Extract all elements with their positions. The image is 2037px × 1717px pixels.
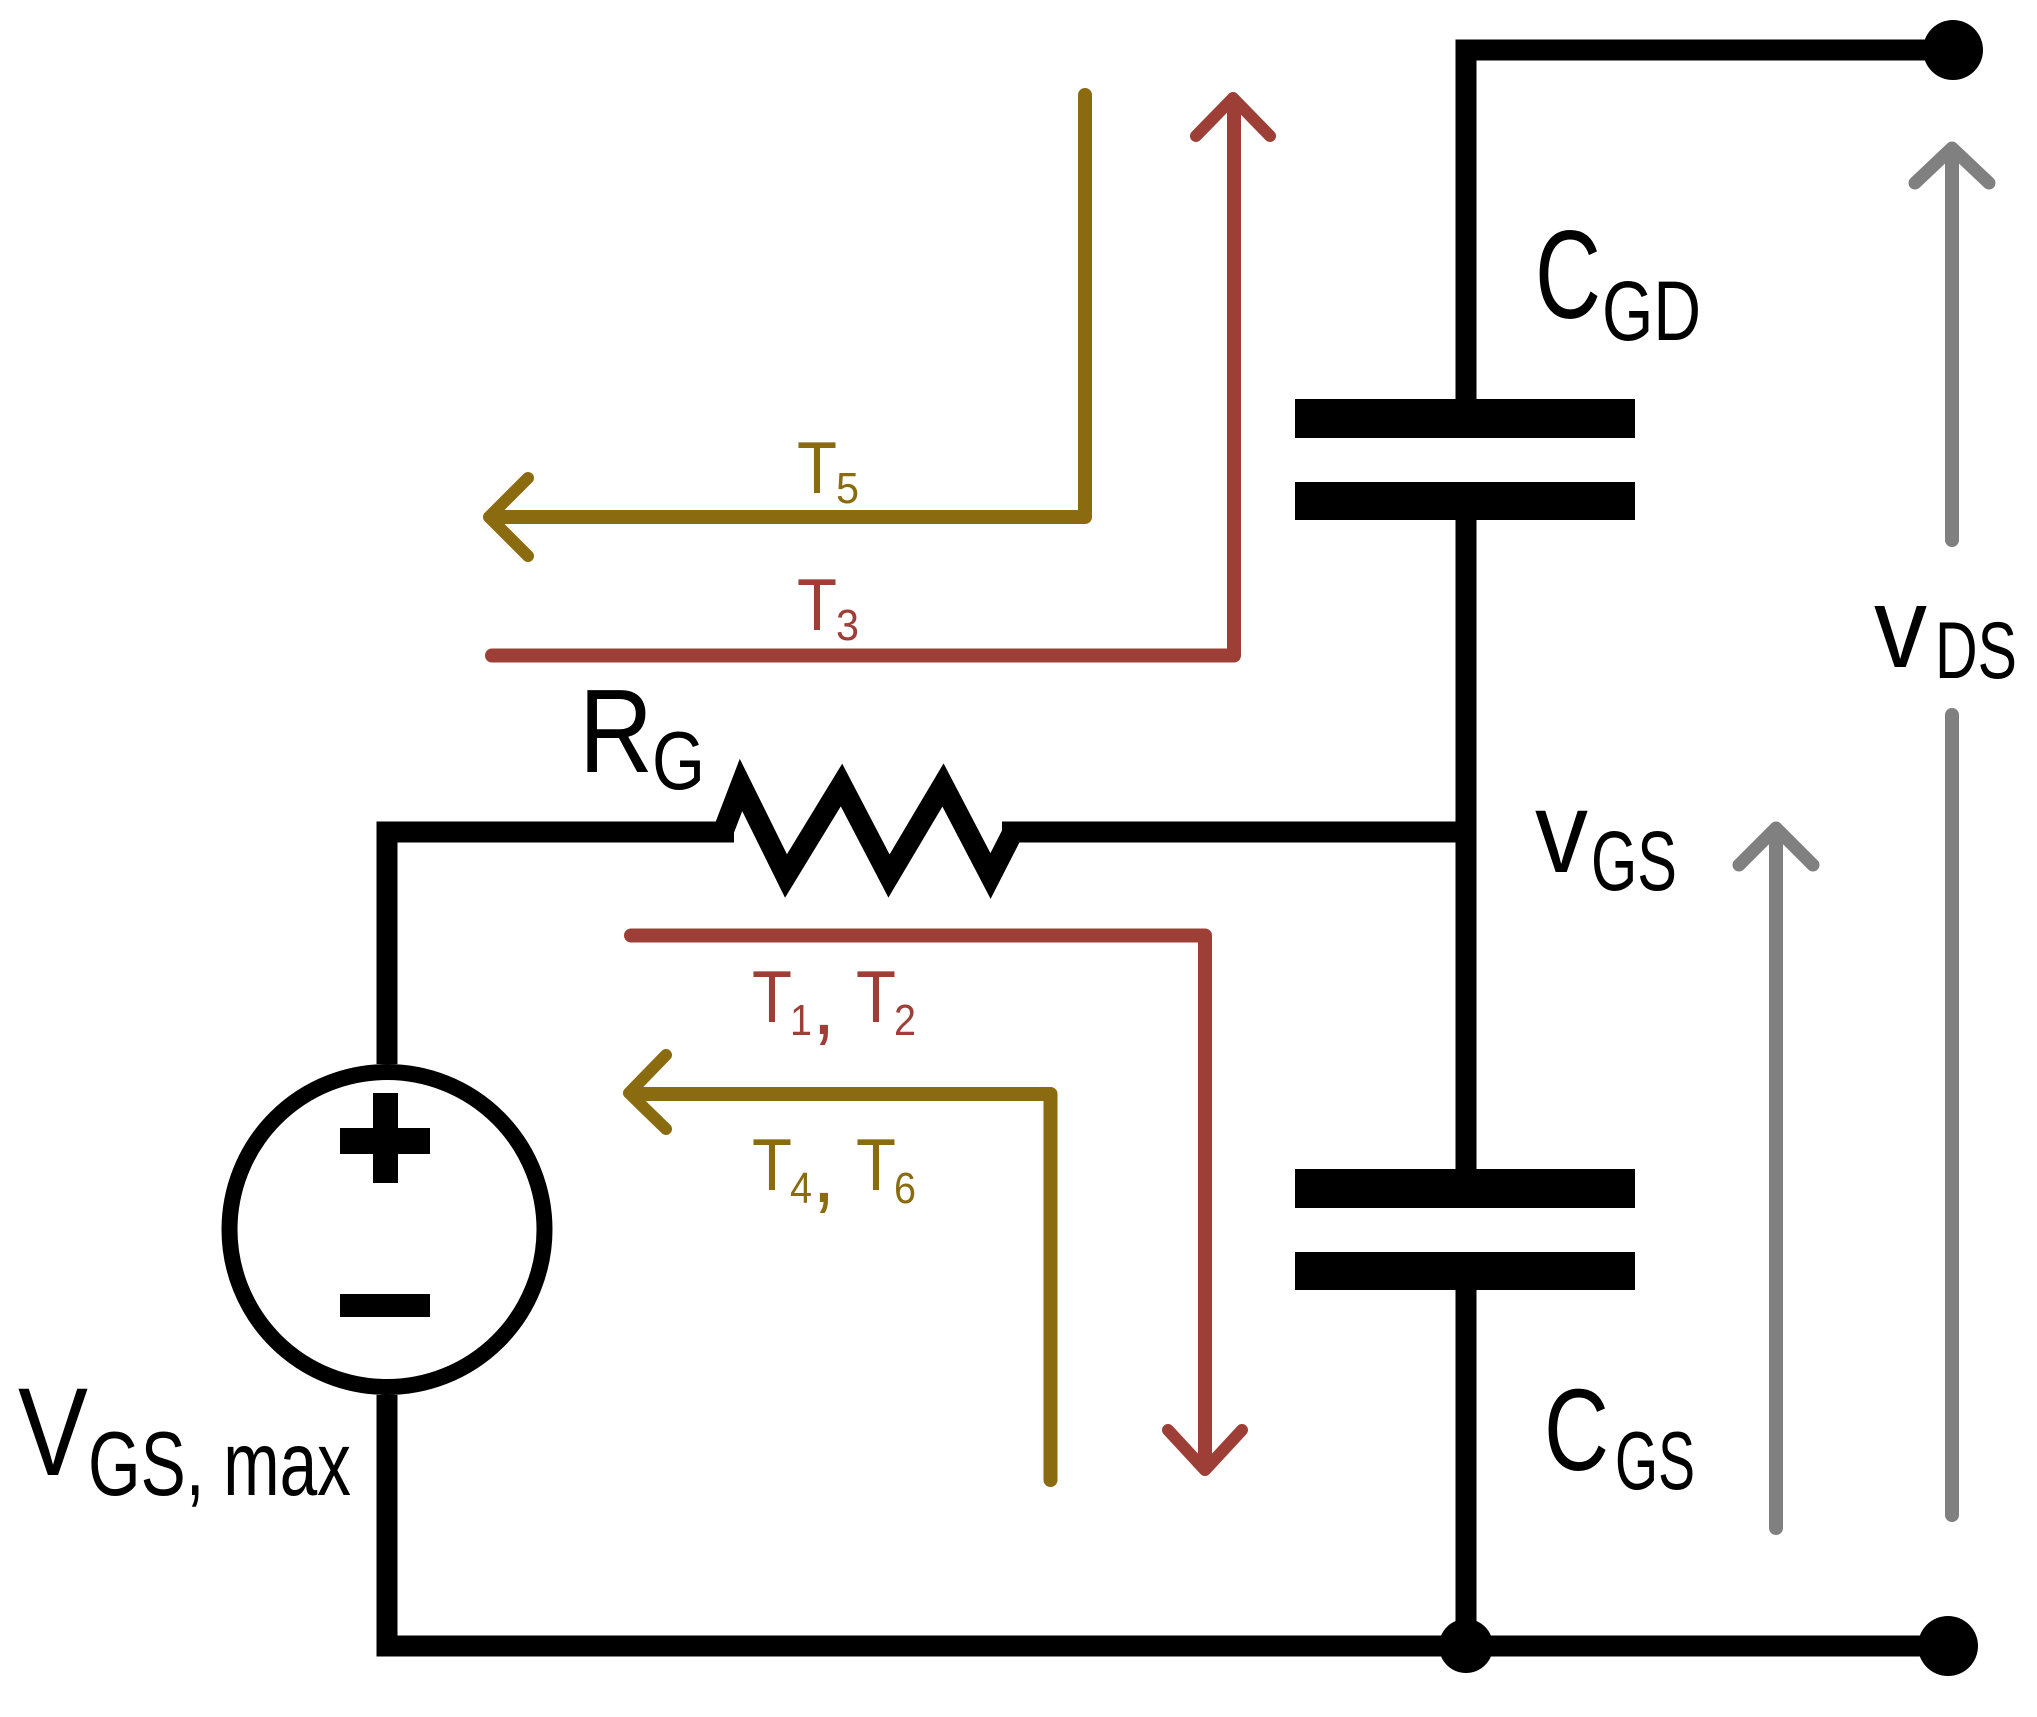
svg-text:R: R bbox=[579, 665, 653, 798]
wire: R_G right lead to gate node bbox=[1002, 822, 1470, 843]
capacitor C_GS bottom plate bbox=[1295, 1252, 1635, 1290]
svg-text:v: v bbox=[1874, 564, 1927, 692]
svg-text:2: 2 bbox=[894, 996, 916, 1045]
capacitor C_GD bottom plate bbox=[1295, 482, 1635, 520]
svg-text:1: 1 bbox=[790, 996, 812, 1045]
current path T3 (red): up arrow and wire along top bbox=[492, 103, 1234, 656]
svg-text:v: v bbox=[1535, 767, 1588, 897]
current path T5 (olive): vertical then left arrow bbox=[497, 95, 1085, 517]
capacitor C_GS top plate bbox=[1295, 1169, 1635, 1208]
voltage source plus sign bbox=[340, 1128, 430, 1154]
svg-text:V: V bbox=[18, 1363, 88, 1502]
svg-text:,: , bbox=[812, 958, 836, 1053]
node dot: source rail junction bbox=[1439, 1619, 1493, 1673]
wire: bottom source rail bbox=[387, 1395, 1948, 1646]
svg-text:GS, max: GS, max bbox=[88, 1414, 351, 1515]
arrow v_DS head bbox=[1915, 148, 1989, 183]
capacitor C_GD top plate bbox=[1295, 399, 1635, 438]
current path T4,T6 arrowhead (left) bbox=[629, 1055, 666, 1129]
current path T5 arrowhead (left) bbox=[489, 478, 528, 556]
wire: C_GS bottom to source rail bbox=[1456, 1290, 1477, 1646]
svg-text:T: T bbox=[797, 428, 837, 509]
resistor R1 (R_G zigzag) bbox=[723, 785, 1013, 876]
node dot: source terminal (bottom right) bbox=[1918, 1616, 1978, 1676]
svg-text:T: T bbox=[752, 957, 792, 1038]
svg-text:5: 5 bbox=[836, 464, 859, 513]
node dot: drain terminal (top right) bbox=[1923, 20, 1983, 80]
svg-text:T: T bbox=[856, 957, 896, 1038]
voltage source V1 circle bbox=[230, 1072, 545, 1387]
svg-text:T: T bbox=[752, 1125, 792, 1206]
svg-text:C: C bbox=[1544, 1365, 1609, 1495]
current path T3 arrowhead bbox=[1196, 98, 1270, 136]
wire: voltage source top to R_G bbox=[387, 832, 734, 1064]
svg-text:G: G bbox=[652, 714, 705, 807]
wire: gate node between C_GD and C_GS bbox=[1456, 520, 1477, 1169]
svg-text:C: C bbox=[1535, 206, 1601, 345]
svg-text:GS: GS bbox=[1615, 1414, 1695, 1507]
svg-text:,: , bbox=[812, 1126, 836, 1221]
svg-text:6: 6 bbox=[894, 1164, 916, 1213]
current path T1,T2 (red): wire below R_G turning down bbox=[631, 936, 1205, 1465]
arrow v_GS head bbox=[1739, 828, 1813, 865]
arrow v_DS upper shaft bbox=[1945, 152, 1959, 540]
svg-text:3: 3 bbox=[836, 601, 859, 650]
current path T1,T2 arrowhead (down) bbox=[1168, 1430, 1242, 1470]
arrow v_GS shaft bbox=[1769, 831, 1783, 1528]
current path T4,T6 (olive): left arrow then down bbox=[634, 1094, 1051, 1480]
arrow v_DS lower shaft bbox=[1945, 715, 1959, 1515]
svg-text:T: T bbox=[797, 565, 837, 646]
voltage source minus sign bbox=[340, 1294, 430, 1317]
svg-text:4: 4 bbox=[790, 1164, 812, 1213]
svg-text:DS: DS bbox=[1935, 606, 2017, 696]
svg-text:GS: GS bbox=[1591, 814, 1677, 908]
wire: top drain rail from gate-drain branch to drain terminal bbox=[1466, 50, 1953, 399]
svg-text:T: T bbox=[856, 1125, 896, 1206]
svg-text:GD: GD bbox=[1602, 264, 1701, 358]
